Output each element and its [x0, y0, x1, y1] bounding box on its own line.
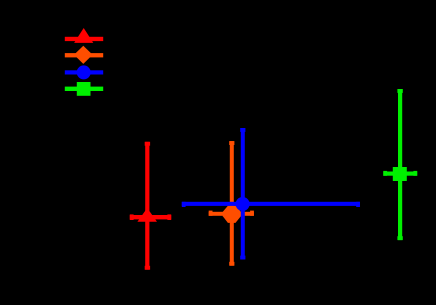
orange horizontal bar left cap [209, 211, 213, 216]
blue series vertical error bar [241, 128, 245, 260]
green horizontal bar right cap [413, 171, 417, 176]
legend entry 4 marker: green square [77, 82, 91, 96]
legend entry 1 line (red) [65, 37, 103, 41]
green series horizontal error bar [383, 172, 417, 176]
legend entry 4 line (green) [65, 87, 103, 91]
red vertical bar top cap [145, 142, 150, 146]
blue horizontal bar left cap [182, 202, 186, 207]
blue data marker: circle [236, 197, 250, 211]
blue vertical bar bottom cap [240, 256, 245, 260]
legend entry 2 line (orange) [65, 53, 103, 57]
red horizontal bar right cap [167, 214, 171, 220]
orange data marker: diamond [223, 206, 241, 223]
orange vertical bar bottom cap [229, 262, 234, 266]
green vertical bar bottom cap [397, 236, 402, 240]
blue series horizontal error bar [182, 202, 360, 206]
green horizontal bar left cap [383, 171, 387, 176]
green series vertical error bar [398, 89, 402, 240]
orange vertical bar top cap [229, 141, 234, 145]
red series vertical error bar [145, 142, 149, 270]
green vertical bar top cap [397, 89, 402, 93]
legend entry 3 marker: blue circle [77, 65, 91, 79]
legend entry 1 marker: red triangle [74, 28, 93, 43]
blue vertical bar top cap [240, 128, 245, 132]
red vertical bar bottom cap [145, 266, 150, 270]
red series horizontal error bar [130, 215, 171, 219]
red horizontal bar left cap [130, 214, 134, 220]
orange series vertical error bar [230, 141, 234, 266]
legend entry 3 line (blue) [65, 70, 103, 74]
blue horizontal bar right cap [356, 202, 360, 207]
red data marker: triangle [137, 208, 157, 222]
orange series horizontal error bar [209, 212, 254, 216]
green data marker: square [393, 167, 407, 181]
orange horizontal bar right cap [250, 211, 254, 216]
legend entry 2 marker: orange diamond [74, 46, 93, 64]
